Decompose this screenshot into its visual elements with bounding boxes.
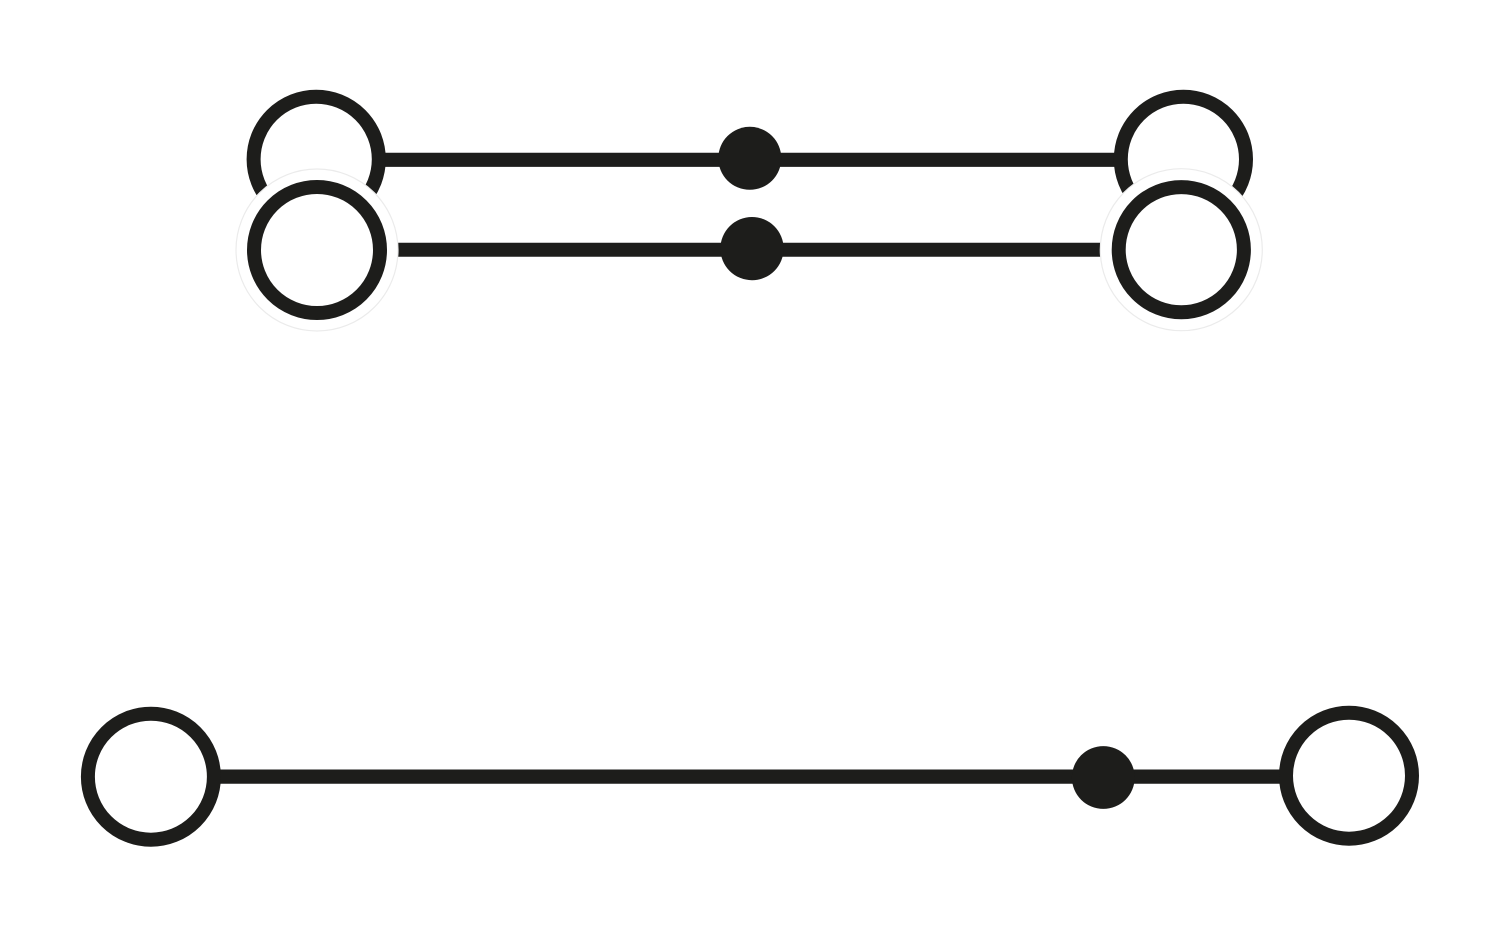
wire: lower level conductor between left and right clamp terminals: [317, 243, 1181, 257]
terminal clamp circle: lower left (level 2): [254, 187, 380, 313]
terminal clamp circle: upper right (level 1): [1121, 97, 1246, 222]
terminal clamp circle: lower right (level 2): [1119, 187, 1244, 312]
wire: bottom feed-through conductor: [151, 769, 1349, 783]
junction dot on bottom conductor: [1072, 746, 1135, 809]
terminal clamp circle: upper left (level 1): [254, 97, 379, 222]
terminal clamp circle: bottom left: [88, 714, 214, 840]
white halo around lower left clamp circle: [236, 169, 398, 331]
wire: upper level conductor between left and right clamp terminals: [316, 153, 1183, 167]
terminal clamp circle: bottom right: [1286, 713, 1412, 839]
white halo around lower right clamp circle: [1100, 169, 1262, 331]
junction dot on lower conductor: [720, 217, 783, 280]
junction dot on upper conductor: [718, 127, 781, 190]
